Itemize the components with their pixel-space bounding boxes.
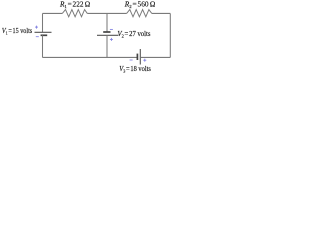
resistor R2 <box>127 10 152 17</box>
svg-text:R1=222Ω: R1=222Ω <box>59 1 90 9</box>
battery V2 short plate (-) <box>103 31 110 33</box>
wire: right side vertical <box>169 13 171 57</box>
svg-text:V2=27 volts: V2=27 volts <box>118 30 151 38</box>
svg-text:V1=15 volts: V1=15 volts <box>2 27 33 35</box>
plus sign V3 <box>143 59 146 62</box>
wire: bottom left segment <box>43 56 138 58</box>
battery V1 long plate (+) <box>35 31 52 33</box>
battery V1 short plate (-) <box>41 34 48 36</box>
wire: middle vertical upper <box>106 13 108 32</box>
resistor R1 <box>62 10 87 17</box>
wire: left vertical lower <box>42 35 44 57</box>
wire: top middle segment <box>87 12 126 14</box>
minus sign V1 <box>36 36 39 38</box>
battery V2 long plate (+) <box>97 34 119 36</box>
battery V3 long plate (+) <box>139 49 141 65</box>
svg-text:R2=560Ω: R2=560Ω <box>124 1 156 9</box>
wire: top left segment <box>43 12 63 14</box>
minus sign V3 <box>130 59 133 61</box>
wire: top right segment <box>152 12 171 14</box>
svg-text:V3=18 volts: V3=18 volts <box>119 65 151 73</box>
battery V3 short plate (-) <box>136 54 138 60</box>
wire: bottom right segment <box>140 56 170 58</box>
minus sign V2 <box>110 28 113 30</box>
plus sign V2 <box>110 38 113 41</box>
wire: left vertical upper <box>42 13 44 32</box>
wire: middle vertical lower <box>106 35 108 57</box>
plus sign V1 <box>35 26 38 29</box>
